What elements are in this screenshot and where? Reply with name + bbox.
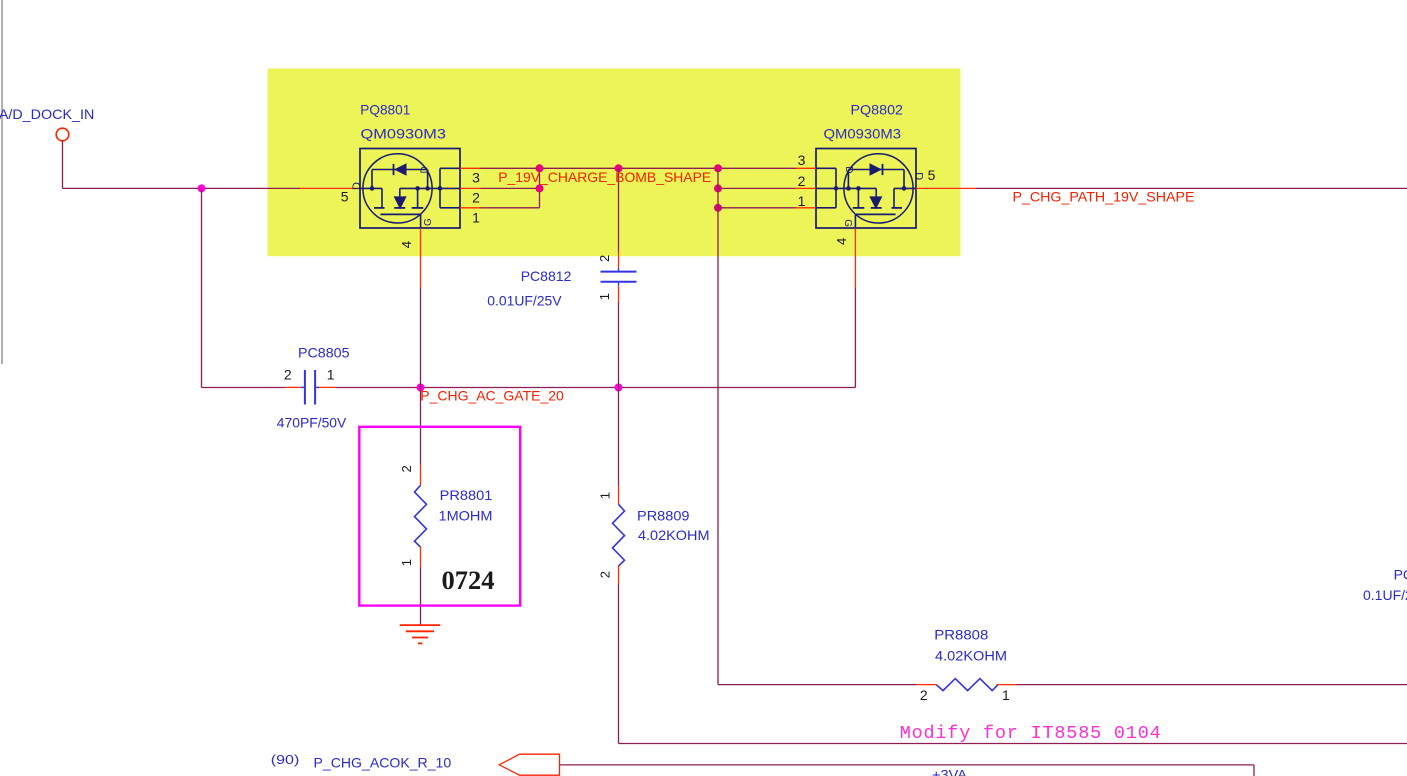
svg-text:5: 5 [928, 167, 936, 183]
svg-text:QM0930M3: QM0930M3 [824, 125, 902, 141]
svg-text:1MOHM: 1MOHM [439, 508, 493, 524]
svg-text:PC8805: PC8805 [298, 345, 350, 361]
svg-text:1: 1 [327, 367, 335, 383]
svg-text:0724: 0724 [442, 565, 495, 595]
svg-text:2: 2 [798, 173, 806, 189]
svg-text:3: 3 [472, 170, 480, 186]
svg-text:PR8808: PR8808 [934, 627, 988, 643]
svg-text:P_19V_CHARGE_BOMB_SHAPE: P_19V_CHARGE_BOMB_SHAPE [498, 169, 711, 185]
svg-text:D: D [913, 172, 925, 180]
svg-text:+3VA: +3VA [932, 767, 968, 776]
svg-text:PR8809: PR8809 [637, 507, 690, 523]
svg-text:D: D [843, 166, 854, 173]
svg-text:A/D_DOCK_IN: A/D_DOCK_IN [0, 106, 94, 122]
svg-text:5: 5 [341, 189, 349, 205]
svg-text:4.02KOHM: 4.02KOHM [638, 527, 710, 543]
svg-text:0.01UF/25V: 0.01UF/25V [487, 293, 562, 309]
svg-text:2: 2 [597, 255, 612, 262]
svg-text:2: 2 [920, 687, 928, 703]
svg-text:3: 3 [798, 152, 806, 168]
svg-text:4: 4 [834, 238, 849, 245]
svg-text:P_CHG_AC_GATE_20: P_CHG_AC_GATE_20 [420, 388, 564, 404]
svg-text:G: G [423, 218, 434, 226]
svg-text:PQ8802: PQ8802 [851, 101, 904, 117]
svg-text:(90): (90) [271, 753, 300, 767]
svg-text:P_CHG_PATH_19V_SHAPE: P_CHG_PATH_19V_SHAPE [1013, 189, 1195, 205]
svg-text:PQ8801: PQ8801 [360, 101, 410, 117]
svg-text:2: 2 [399, 465, 414, 472]
svg-text:1: 1 [598, 492, 613, 499]
svg-text:1: 1 [472, 209, 480, 225]
svg-text:QM0930M3: QM0930M3 [361, 125, 447, 141]
svg-text:PC8811: PC8811 [1394, 566, 1407, 582]
svg-text:D: D [351, 182, 363, 190]
svg-text:4.02KOHM: 4.02KOHM [935, 648, 1007, 664]
svg-text:PC8812: PC8812 [521, 268, 572, 284]
svg-text:0.1UF/25V: 0.1UF/25V [1363, 587, 1407, 603]
svg-text:1: 1 [798, 193, 806, 209]
svg-text:4: 4 [399, 241, 414, 248]
svg-text:G: G [842, 219, 853, 227]
svg-text:2: 2 [598, 571, 613, 578]
svg-text:Modify for IT8585 0104: Modify for IT8585 0104 [900, 723, 1161, 744]
svg-text:D: D [420, 166, 431, 173]
svg-text:1: 1 [1002, 687, 1010, 703]
svg-text:PR8801: PR8801 [440, 487, 493, 503]
svg-text:2: 2 [284, 367, 292, 383]
svg-text:P_CHG_ACOK_R_10: P_CHG_ACOK_R_10 [314, 755, 452, 771]
svg-text:470PF/50V: 470PF/50V [277, 415, 347, 431]
svg-text:1: 1 [597, 293, 612, 300]
svg-text:2: 2 [472, 190, 480, 206]
svg-text:1: 1 [399, 559, 414, 566]
